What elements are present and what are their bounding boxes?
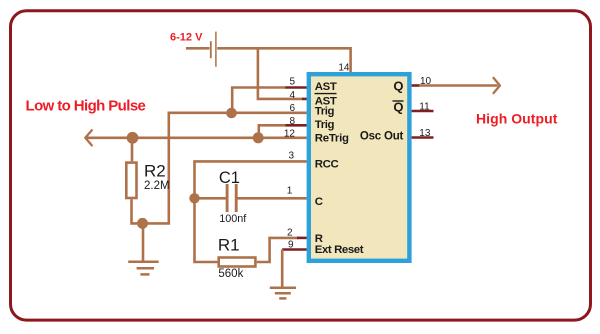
svg-text:12: 12 bbox=[284, 129, 296, 140]
ground G2 bbox=[270, 288, 296, 299]
svg-text:Q: Q bbox=[393, 100, 403, 115]
svg-text:11: 11 bbox=[419, 101, 430, 112]
ground G1 bbox=[128, 262, 159, 275]
wire pin 6 to ground corner bbox=[143, 113, 307, 224]
junction dot pin8 tap bbox=[253, 132, 264, 143]
svg-text:Ext Reset: Ext Reset bbox=[315, 244, 364, 256]
svg-text:High Output: High Output bbox=[476, 111, 558, 127]
svg-text:Q: Q bbox=[393, 78, 403, 93]
wire ground stem bbox=[142, 223, 145, 261]
svg-text:Low to High Pulse: Low to High Pulse bbox=[26, 98, 146, 115]
svg-text:ReTrig: ReTrig bbox=[315, 133, 349, 145]
svg-text:2.2M: 2.2M bbox=[144, 180, 170, 192]
pin 9 stub wire bbox=[282, 248, 307, 251]
IC U1 4098 body bbox=[309, 74, 410, 261]
svg-text:100nf: 100nf bbox=[219, 213, 247, 225]
svg-text:6-12 V: 6-12 V bbox=[170, 32, 203, 44]
resistor R2 bbox=[126, 163, 136, 198]
svg-text:1: 1 bbox=[287, 186, 293, 197]
arrowhead right bbox=[494, 78, 500, 93]
pin 2 stub bbox=[297, 237, 307, 240]
resistor R1 bbox=[219, 258, 256, 267]
svg-text:Osc Out: Osc Out bbox=[360, 131, 404, 143]
svg-text:9: 9 bbox=[288, 240, 294, 251]
svg-text:8: 8 bbox=[289, 116, 295, 127]
wire battery left stub bbox=[186, 47, 210, 50]
svg-text:10: 10 bbox=[420, 76, 432, 87]
wire power rail to pin 14 bbox=[217, 48, 350, 73]
svg-text:RCC: RCC bbox=[315, 158, 339, 170]
junction dot R2 tap bbox=[127, 132, 139, 144]
arrowhead left bbox=[85, 130, 92, 145]
capacitor C1 bbox=[227, 184, 236, 212]
svg-text:C1: C1 bbox=[219, 169, 240, 187]
IC left labels bbox=[315, 81, 364, 256]
wire pin 3 / RCC net bbox=[195, 161, 307, 262]
wire pin 5 riser to pin-6 net bbox=[232, 88, 285, 114]
wire pin 8 drop to pin-12 net bbox=[259, 125, 286, 138]
svg-text:C: C bbox=[315, 196, 323, 208]
wire R2 top lead bbox=[131, 138, 134, 162]
svg-text:13: 13 bbox=[419, 128, 431, 139]
wire pin 9 down to ground bbox=[281, 250, 284, 288]
svg-text:14: 14 bbox=[338, 62, 350, 73]
svg-text:2: 2 bbox=[287, 227, 293, 238]
pin 8 stub bbox=[285, 124, 307, 127]
wire C1 left bbox=[195, 197, 227, 200]
wire pin-4 tap from power rail bbox=[258, 49, 303, 99]
junction dot ground node bbox=[137, 218, 148, 229]
wire R1 right to pin 2 bbox=[257, 238, 298, 262]
pin 11 stub bbox=[412, 110, 434, 113]
svg-text:6: 6 bbox=[289, 103, 295, 114]
overline Q-bar bbox=[393, 100, 404, 102]
svg-text:R1: R1 bbox=[218, 235, 240, 254]
pin 4 stub bbox=[302, 98, 307, 101]
pin 5 stub bbox=[285, 86, 307, 89]
svg-text:R2: R2 bbox=[144, 162, 166, 181]
pin 10 stub bbox=[412, 84, 420, 87]
wire pin 12 / trigger line with left arrow bbox=[87, 137, 307, 140]
junction dot C1 tap bbox=[189, 193, 199, 203]
pin 13 stub bbox=[412, 136, 434, 139]
wire pin 10 output with arrow bbox=[419, 84, 498, 87]
svg-text:Trig: Trig bbox=[315, 119, 335, 131]
svg-text:4: 4 bbox=[289, 90, 295, 101]
svg-text:5: 5 bbox=[289, 76, 295, 87]
svg-text:560k: 560k bbox=[218, 268, 243, 280]
battery B1 bbox=[211, 32, 216, 67]
wire R2 bottom lead bbox=[132, 199, 144, 223]
svg-text:3: 3 bbox=[288, 151, 294, 162]
junction dot pin5/pin6 bbox=[226, 108, 237, 119]
wire pin 1 from C1 bbox=[238, 197, 307, 200]
svg-text:AST: AST bbox=[315, 81, 337, 93]
overline AST-bar bbox=[315, 93, 337, 95]
svg-text:Trig: Trig bbox=[315, 106, 335, 118]
IC right labels bbox=[393, 78, 403, 114]
